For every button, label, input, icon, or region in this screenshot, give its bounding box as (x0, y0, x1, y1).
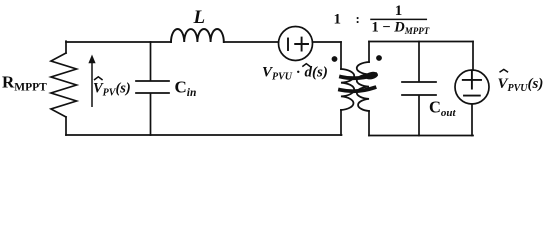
transformer T1 crossing band upper (341, 75, 376, 79)
svg-text:Cin: Cin (175, 78, 197, 100)
svg-text:VPV(s): VPV(s) (93, 81, 131, 99)
wire secondary leg top (368, 42, 370, 63)
label V_PVU d(s) hat (302, 64, 310, 67)
wire right branch top lead (472, 42, 474, 71)
capacitor C_out (402, 42, 436, 136)
svg-text:VPVU(s): VPVU(s) (498, 76, 544, 94)
wire left vertical bottom lead (65, 117, 67, 135)
wire left vertical top lead (65, 41, 67, 53)
wire right branch bottom lead (471, 104, 473, 136)
svg-text:1: 1 (334, 12, 342, 28)
resistor R_MPPT (51, 53, 77, 117)
label v_PVU(s) hat (500, 69, 509, 72)
inductor L (171, 29, 224, 42)
voltage source U2 circle (455, 70, 489, 104)
svg-text:RMPPT: RMPPT (2, 73, 47, 94)
svg-text:L: L (193, 7, 206, 28)
wire bottom rail primary (66, 134, 342, 136)
label v_PV(s) hat (94, 77, 103, 80)
voltage source U1 minus bar (287, 39, 289, 51)
node dot secondary (376, 55, 382, 61)
svg-text::: : (356, 11, 360, 26)
fraction bar of turns ratio (371, 18, 426, 20)
wire top rail primary (66, 41, 341, 43)
transformer T1 secondary winding (357, 62, 369, 111)
wire secondary leg bottom (368, 111, 370, 136)
svg-text:1 − DMPPT: 1 − DMPPT (372, 20, 430, 37)
capacitor C_in (136, 42, 169, 135)
node dot primary (332, 56, 338, 62)
transformer T1 primary winding (341, 69, 354, 110)
svg-text:Cout: Cout (429, 98, 457, 120)
voltage source U2 plus sign (463, 71, 481, 88)
wire primary leg down (340, 42, 342, 69)
transformer T1 crossing curl upper (366, 72, 378, 79)
voltage source U1 circle (279, 27, 313, 61)
svg-text:1: 1 (395, 3, 403, 19)
transformer T1 crossing band lower (340, 88, 375, 92)
wire top rail secondary (369, 41, 473, 43)
wire bottom rail secondary (369, 135, 473, 137)
arrow v_PV(s) (88, 55, 95, 108)
svg-text:VPVU · d(s): VPVU · d(s) (262, 65, 328, 83)
wire primary leg bottom (340, 110, 342, 135)
voltage source U1 plus sign (295, 38, 308, 51)
voltage source U2 minus sign (464, 95, 480, 97)
